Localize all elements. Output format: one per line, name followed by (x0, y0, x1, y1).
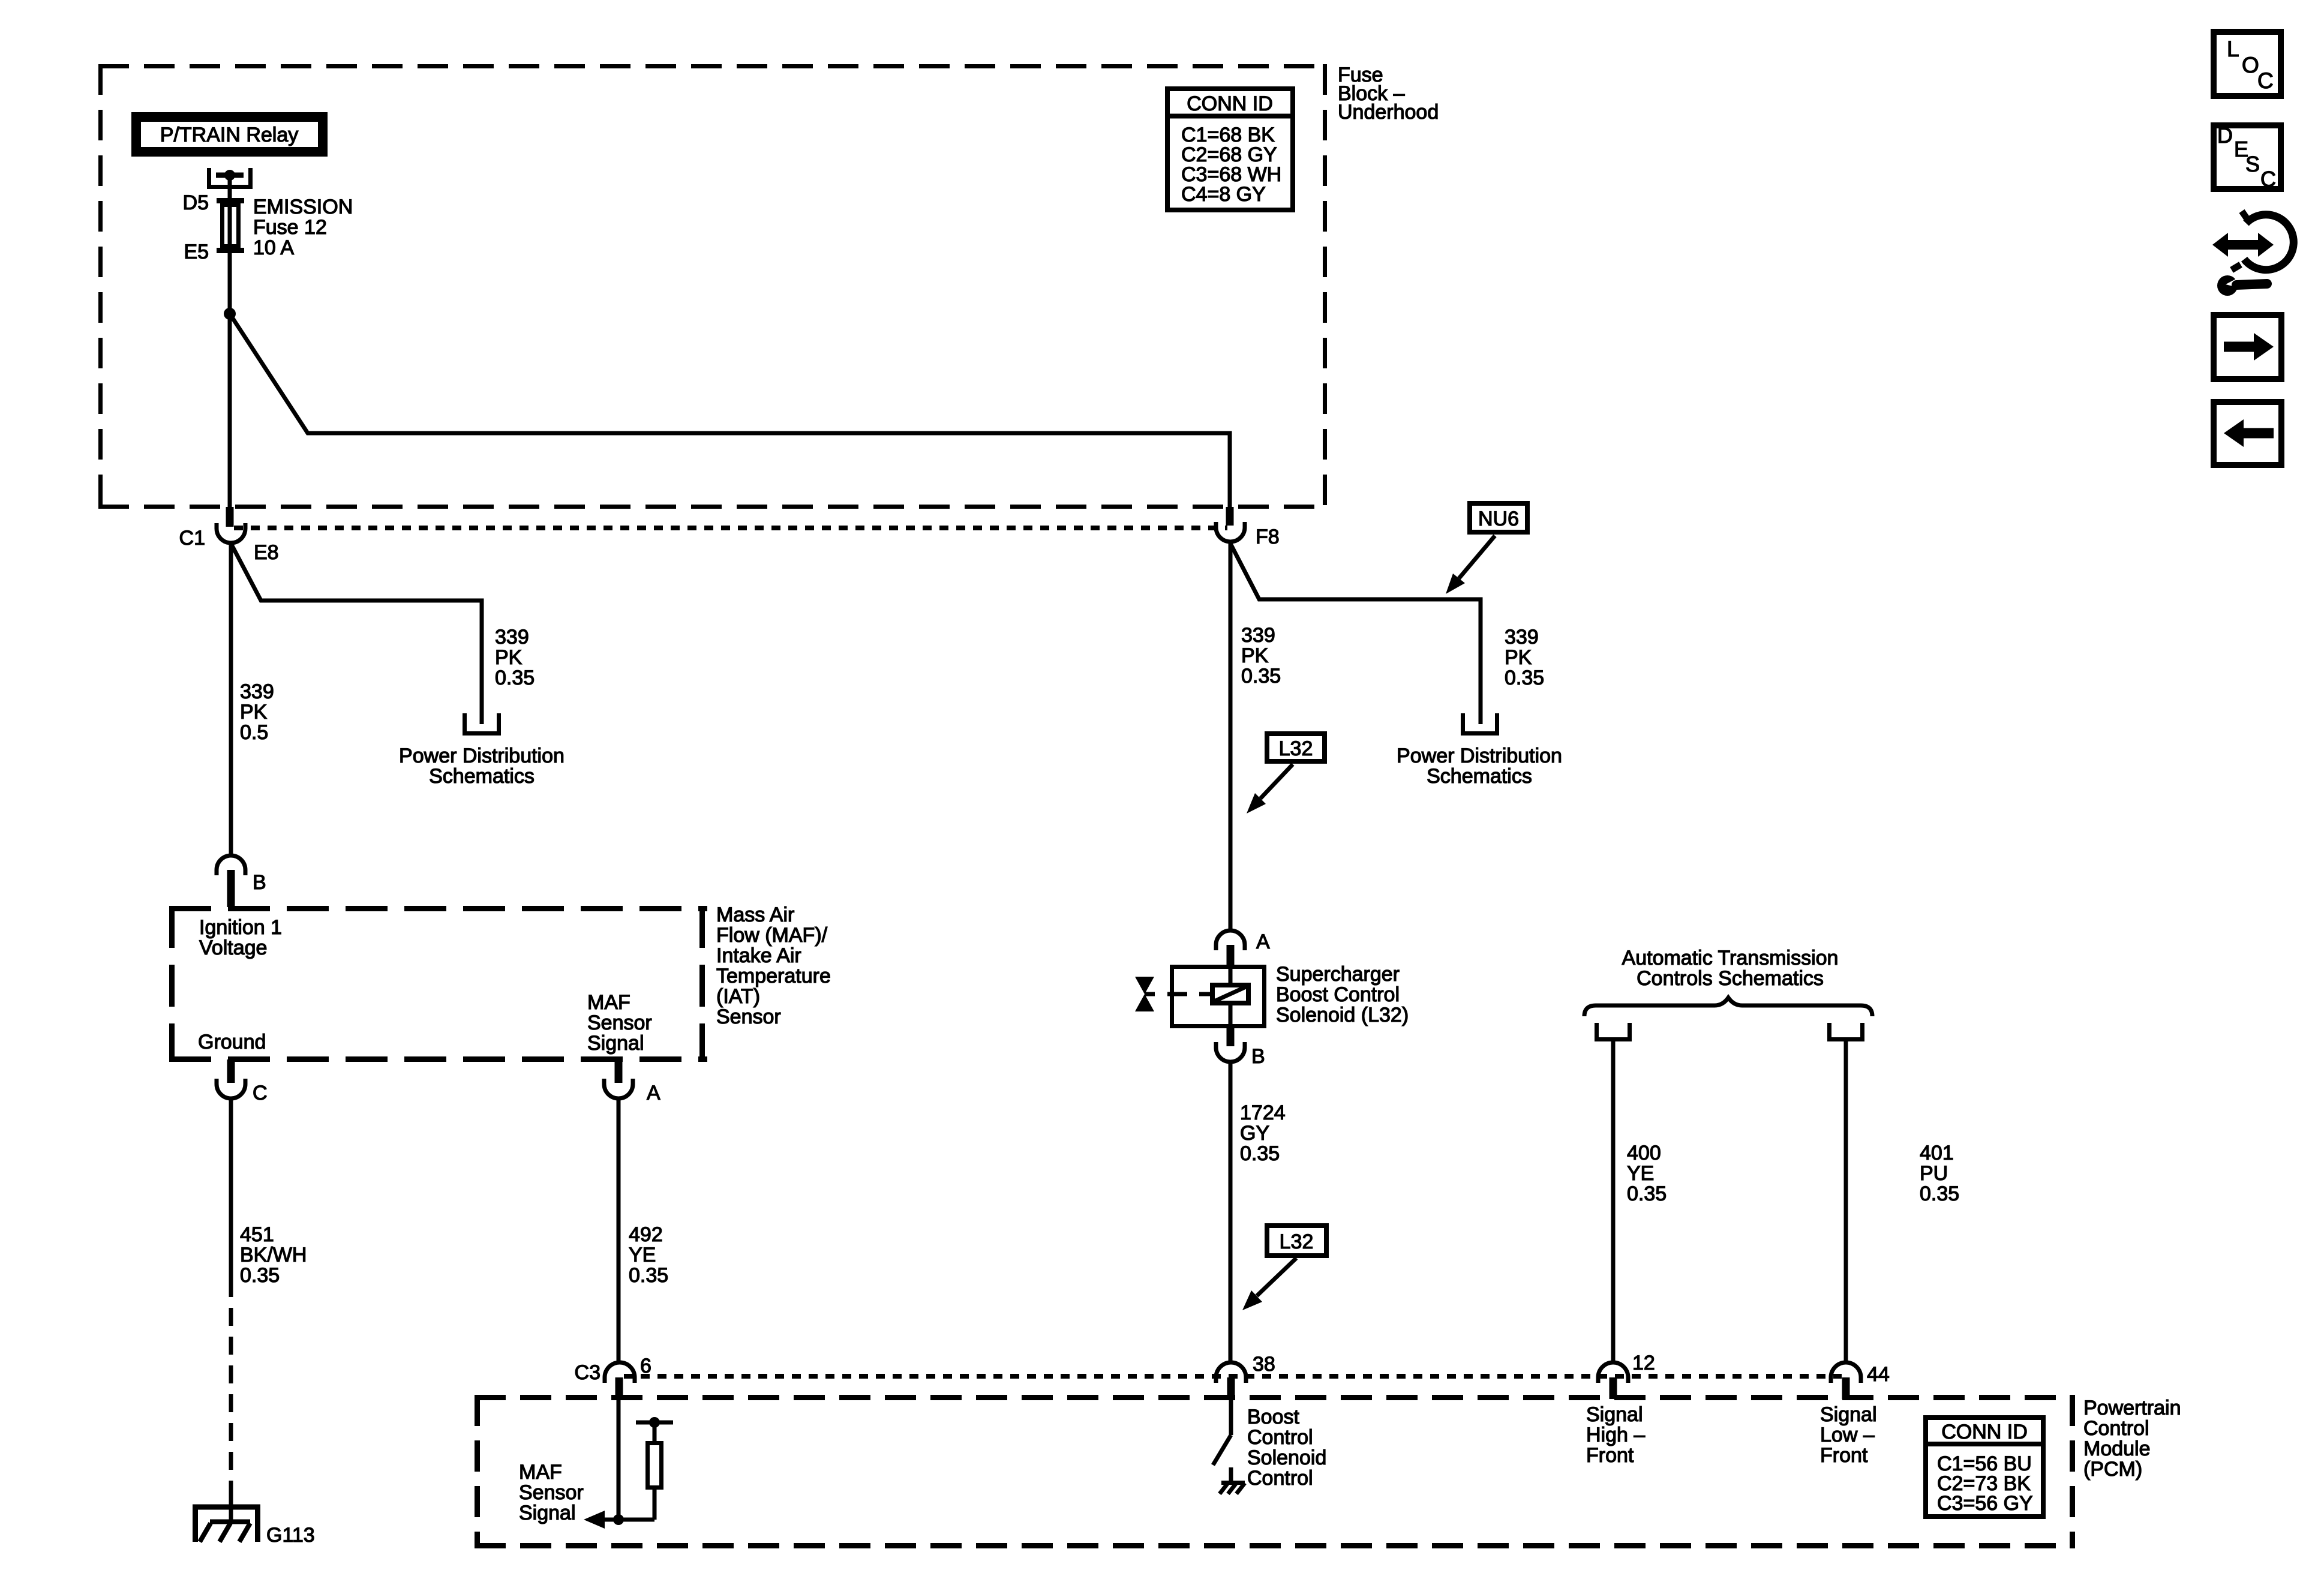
ground (PCM internal) (1220, 1483, 1245, 1494)
connector B (MAF sensor, cup down) (217, 855, 245, 875)
label MAF Sensor Signal (inside sensor box) (587, 991, 652, 1055)
svg-text:44: 44 (1867, 1363, 1890, 1386)
svg-text:339: 339 (240, 680, 274, 703)
svg-text:Ignition 1: Ignition 1 (199, 916, 282, 939)
svg-text:B: B (1251, 1045, 1265, 1068)
connector C1 stub (226, 507, 234, 527)
connector F8 (cup) (1216, 522, 1245, 542)
svg-text:C1: C1 (179, 527, 205, 550)
DESC icon box (2214, 123, 2281, 191)
svg-text:Schematics: Schematics (429, 765, 535, 788)
svg-text:S: S (2245, 152, 2260, 176)
svg-text:P/TRAIN Relay: P/TRAIN Relay (160, 124, 299, 146)
svg-text:Supercharger: Supercharger (1276, 963, 1400, 986)
svg-text:Signal: Signal (587, 1032, 644, 1055)
L32 arrow (upper) (1247, 764, 1293, 813)
label 492 YE 0.35 (629, 1223, 668, 1287)
svg-text:E8: E8 (254, 541, 279, 564)
label Powertrain Control Module (PCM) (2083, 1397, 2181, 1481)
svg-text:0.5: 0.5 (240, 721, 268, 744)
dashed actuator link (1145, 992, 1210, 996)
svg-text:339: 339 (1505, 626, 1539, 649)
label 401 PU 0.35 (1920, 1142, 1959, 1205)
svg-text:Schematics: Schematics (1427, 765, 1532, 788)
svg-text:38: 38 (1253, 1353, 1275, 1376)
resistor (PCM internal) (648, 1422, 662, 1520)
svg-text:Signal: Signal (1820, 1403, 1877, 1426)
svg-text:0.35: 0.35 (240, 1264, 280, 1287)
label MAF Sensor Signal (PCM) (519, 1461, 584, 1524)
connector A (MAF sensor, cup) (604, 1079, 633, 1098)
power distribution connector (square cup, left) (465, 713, 499, 734)
svg-text:E5: E5 (184, 241, 209, 263)
svg-text:PK: PK (495, 646, 523, 669)
svg-text:C3=56 GY: C3=56 GY (1937, 1492, 2033, 1515)
svg-text:(PCM): (PCM) (2083, 1458, 2142, 1481)
svg-text:6: 6 (640, 1355, 651, 1377)
wire F8 to solenoid A (1229, 544, 1233, 930)
label Signal Low - Front (1820, 1403, 1877, 1467)
svg-text:Signal: Signal (519, 1502, 576, 1524)
svg-text:1724: 1724 (1240, 1101, 1286, 1124)
wire junction to F8 drop (diagonal + horizontal + vertical) (230, 314, 1230, 507)
svg-text:D5: D5 (183, 191, 209, 214)
svg-text:YE: YE (629, 1244, 656, 1266)
svg-text:Powertrain: Powertrain (2083, 1397, 2181, 1419)
label Automatic Transmission Controls Schematics (1622, 947, 1839, 990)
svg-text:Power Distribution: Power Distribution (1397, 745, 1562, 767)
solenoid coil (rect with diagonal) (1212, 985, 1248, 1003)
NU6 box (1470, 503, 1527, 532)
wire C1 to B (229, 544, 233, 855)
label 339 PK 0.35 (right branch) (1505, 626, 1544, 689)
wrench and arrow icon (2212, 211, 2293, 296)
maf signal junction dot (613, 1514, 624, 1525)
label Power Distribution Schematics (left) (399, 745, 565, 788)
valve symbol (bowtie) (1135, 977, 1154, 1011)
brace (automatic transmission controls) (1584, 998, 1872, 1016)
svg-text:10 A: 10 A (253, 236, 294, 259)
svg-text:F8: F8 (1256, 526, 1280, 548)
right arrow icon box (2214, 315, 2281, 379)
CONN ID table (fuse block) (1167, 89, 1293, 210)
svg-text:C: C (2260, 167, 2276, 191)
connector C (cup) (217, 1079, 245, 1098)
L32 box (lower) (1267, 1226, 1326, 1256)
svg-text:0.35: 0.35 (1240, 1142, 1280, 1165)
svg-text:339: 339 (1241, 624, 1275, 647)
fuse block label: Fuse Block - Underhood (1338, 64, 1439, 124)
connector C3 pin 6 (cup down) (605, 1362, 635, 1383)
svg-text:CONN ID: CONN ID (1187, 92, 1273, 115)
ground G113 (193, 1507, 260, 1542)
svg-text:Flow (MAF)/: Flow (MAF)/ (716, 924, 828, 947)
svg-text:0.35: 0.35 (495, 667, 535, 689)
svg-text:Voltage: Voltage (199, 936, 267, 959)
svg-text:MAF: MAF (519, 1461, 562, 1484)
svg-text:O: O (2242, 53, 2259, 77)
svg-text:High –: High – (1586, 1424, 1645, 1446)
svg-text:Power Distribution: Power Distribution (399, 745, 565, 767)
svg-text:400: 400 (1627, 1142, 1661, 1164)
svg-text:Low –: Low – (1820, 1424, 1875, 1446)
left arrow icon box (2214, 402, 2281, 465)
svg-text:PU: PU (1920, 1162, 1948, 1185)
wire pin 6 to maf signal node (617, 1399, 621, 1520)
label Mass Air Flow (MAF)/ Intake Air Temperature (IAT) Sensor (716, 903, 831, 1028)
svg-text:PK: PK (1241, 644, 1269, 667)
svg-text:PK: PK (1505, 646, 1532, 669)
L32 arrow (lower) (1242, 1258, 1296, 1310)
svg-text:Solenoid (L32): Solenoid (L32) (1276, 1004, 1409, 1026)
svg-text:Temperature: Temperature (716, 965, 831, 987)
power distribution connector (square cup, right) (1463, 713, 1497, 734)
connector pin 12 (cup down) (1598, 1362, 1628, 1383)
svg-text:MAF: MAF (587, 991, 630, 1014)
wire B to pin 38 (1229, 1062, 1233, 1362)
svg-text:D: D (2217, 123, 2233, 148)
CONN ID table (PCM) (1926, 1418, 2043, 1517)
harness dotted line PCM (624, 1374, 1842, 1379)
svg-text:Front: Front (1586, 1444, 1634, 1467)
svg-text:339: 339 (495, 626, 529, 649)
connector pin 44 (cup down) (1831, 1362, 1861, 1383)
svg-text:Control: Control (1247, 1467, 1313, 1490)
svg-text:PK: PK (240, 701, 268, 724)
label 1724 GY 0.35 (1240, 1101, 1286, 1165)
svg-text:C: C (2257, 68, 2274, 93)
svg-text:Boost Control: Boost Control (1276, 983, 1400, 1006)
relay socket terminal (square cup with pin bar and dot) (209, 168, 251, 187)
junction node dot (224, 308, 236, 320)
svg-text:L32: L32 (1280, 1230, 1314, 1253)
svg-text:401: 401 (1920, 1142, 1954, 1164)
svg-text:BK/WH: BK/WH (240, 1244, 307, 1266)
wire ATC left to pin 12 (1611, 1041, 1616, 1362)
NU6 arrow (1446, 536, 1495, 594)
supercharger boost control solenoid box (1172, 967, 1265, 1026)
svg-text:0.35: 0.35 (629, 1264, 668, 1287)
svg-text:C3: C3 (575, 1361, 600, 1384)
harness dotted line C1 to F8 (234, 526, 1227, 530)
label Power Distribution Schematics (right) (1397, 745, 1562, 788)
connector F8 stub (1226, 507, 1234, 526)
label 339 PK 0.5 (240, 680, 274, 744)
label 339 PK 0.35 (middle) (1241, 624, 1281, 688)
wire A to pin 6 (617, 1098, 621, 1362)
connector A (solenoid, cup down) (1216, 930, 1245, 950)
ATC connector (square cup, left) (1597, 1023, 1630, 1040)
svg-text:0.35: 0.35 (1241, 665, 1281, 688)
svg-text:Control: Control (2083, 1417, 2149, 1440)
wire F8 branch to power distribution (right) (1230, 544, 1481, 724)
fuse block underhood dashed box (98, 64, 1327, 509)
svg-text:492: 492 (629, 1223, 663, 1246)
svg-text:Boost: Boost (1247, 1406, 1299, 1428)
svg-text:Front: Front (1820, 1444, 1868, 1467)
svg-text:0.35: 0.35 (1920, 1182, 1959, 1205)
wire C to G113 (solid then dashed) (229, 1098, 233, 1279)
boost control solenoid control switch (1213, 1399, 1231, 1482)
connector B (solenoid) stub (1227, 1027, 1235, 1046)
connector C stub (227, 1059, 235, 1083)
svg-text:Sensor: Sensor (587, 1011, 652, 1034)
svg-text:L: L (2227, 37, 2239, 61)
P/TRAIN Relay label box (136, 117, 323, 152)
svg-text:A: A (1256, 930, 1270, 953)
wire ATC right to pin 44 (1844, 1041, 1848, 1362)
svg-text:EMISSION: EMISSION (253, 196, 353, 218)
svg-text:(IAT): (IAT) (716, 985, 760, 1008)
svg-text:12: 12 (1632, 1352, 1655, 1374)
svg-text:CONN ID: CONN ID (1941, 1421, 2028, 1443)
connector A stub (615, 1059, 623, 1083)
svg-text:Intake Air: Intake Air (716, 944, 801, 967)
connector C1 (cup) (217, 523, 245, 543)
connector B (solenoid, cup) (1216, 1042, 1245, 1062)
svg-text:A: A (647, 1082, 660, 1104)
svg-text:Ground: Ground (198, 1031, 266, 1053)
svg-text:0.35: 0.35 (1505, 667, 1544, 689)
wire E8 branch to power distribution (231, 544, 482, 724)
svg-text:GY: GY (1240, 1122, 1269, 1145)
label Supercharger Boost Control Solenoid (L32) (1276, 963, 1409, 1026)
svg-text:C4=8 GY: C4=8 GY (1181, 183, 1266, 206)
svg-text:451: 451 (240, 1223, 274, 1246)
svg-text:Underhood: Underhood (1338, 101, 1439, 124)
svg-text:Fuse 12: Fuse 12 (253, 216, 327, 239)
ATC connector (square cup, right) (1830, 1023, 1863, 1040)
svg-text:Sensor: Sensor (716, 1005, 781, 1028)
svg-text:Signal: Signal (1586, 1403, 1643, 1426)
svg-text:0.35: 0.35 (1627, 1182, 1667, 1205)
MAF/IAT sensor dashed box (169, 906, 707, 1062)
svg-text:L32: L32 (1279, 737, 1313, 760)
svg-text:Automatic Transmission: Automatic Transmission (1622, 947, 1839, 969)
connector pin 38 (cup down) (1216, 1362, 1246, 1383)
wire relay to fuse to junction (228, 175, 232, 507)
LOC icon box (2214, 32, 2281, 96)
label Ignition 1 Voltage (199, 916, 282, 959)
fuse EMISSION Fuse 12 10A (183, 191, 353, 263)
maf signal line with arrow (584, 1511, 654, 1529)
label 400 YE 0.35 (1627, 1142, 1667, 1205)
powertrain control module dashed box (475, 1395, 2075, 1548)
svg-text:NU6: NU6 (1478, 508, 1519, 530)
wire coil to B (1229, 1004, 1233, 1028)
svg-text:G113: G113 (266, 1524, 315, 1547)
L32 box (upper) (1267, 734, 1325, 761)
svg-text:YE: YE (1627, 1162, 1654, 1185)
svg-text:Control: Control (1247, 1426, 1313, 1449)
label 339 PK 0.35 (left branch) (495, 626, 535, 689)
internal node T-bar with dot (636, 1417, 673, 1428)
svg-text:Mass Air: Mass Air (716, 903, 794, 926)
label Signal High - Front (1586, 1403, 1645, 1467)
svg-text:Solenoid: Solenoid (1247, 1446, 1326, 1469)
svg-text:Module: Module (2083, 1437, 2151, 1460)
wire A into coil (1229, 969, 1233, 985)
svg-text:C: C (253, 1082, 268, 1104)
svg-text:B: B (253, 871, 266, 894)
svg-text:Controls Schematics: Controls Schematics (1637, 967, 1824, 990)
label Boost Control Solenoid Control (1247, 1406, 1326, 1490)
label 451 BK/WH 0.35 (240, 1223, 307, 1287)
svg-text:Sensor: Sensor (519, 1481, 584, 1504)
